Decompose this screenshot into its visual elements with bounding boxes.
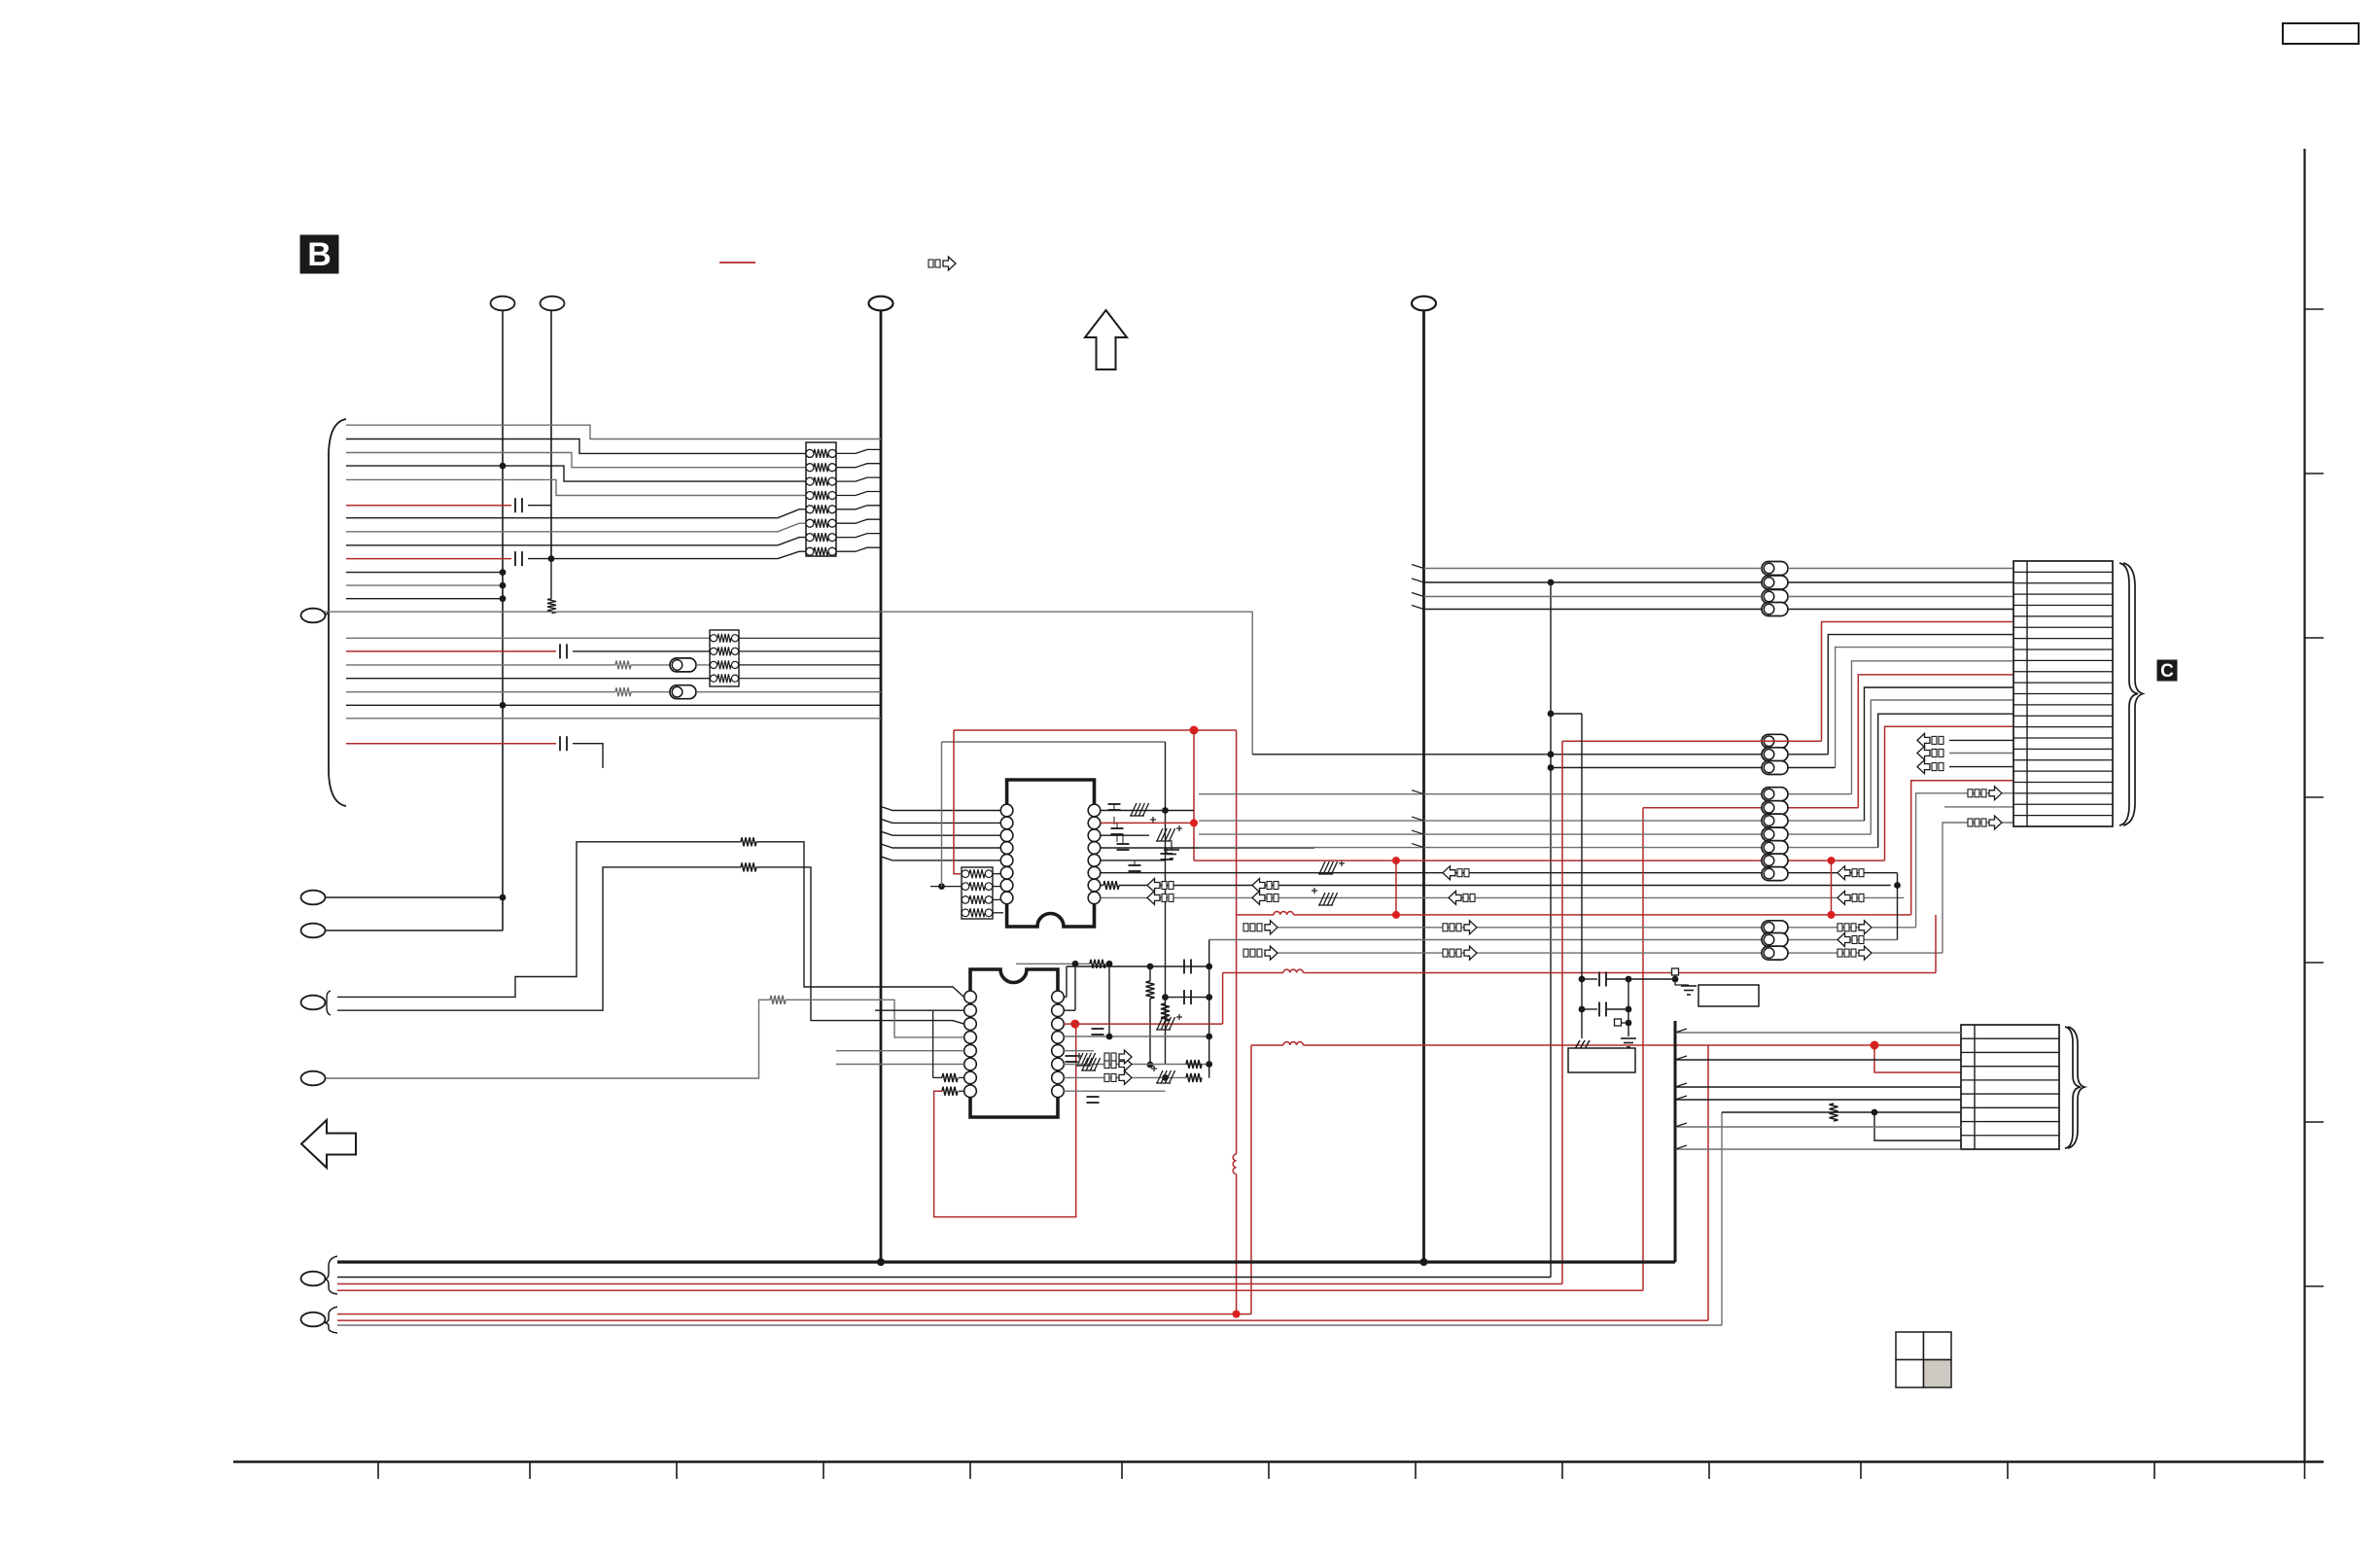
ground G-p1 xyxy=(1131,803,1137,816)
bus red line5 xyxy=(337,1314,1251,1316)
net arrow p7-a xyxy=(1147,879,1160,893)
wire U2 pin R5 xyxy=(1064,1050,1094,1052)
wire U1 pin R5 xyxy=(1101,860,1165,861)
node bus3-V1 xyxy=(500,463,507,470)
terminal oval T7 xyxy=(301,924,326,938)
legend arrow glyph xyxy=(928,260,933,267)
wire bus21 (red) xyxy=(346,743,556,745)
resistor R-o8a xyxy=(741,837,756,846)
wire red V1257 xyxy=(1222,973,1224,1025)
net arrow H953-b xyxy=(1443,924,1448,931)
wire V1243 xyxy=(1208,940,1210,1078)
node v1183-1095 xyxy=(1147,1062,1154,1069)
resistor R-U2L7 xyxy=(959,1076,964,1078)
net arrow p6-b xyxy=(1837,866,1850,880)
U1 pin R1 xyxy=(1088,804,1101,817)
rail V4 (thick) xyxy=(1422,310,1425,1262)
wire red V1287 xyxy=(1250,1045,1252,1315)
wire red H885 xyxy=(1194,860,1885,861)
U2 pin L6 xyxy=(964,1058,977,1070)
U1 pin R8 xyxy=(1088,892,1101,904)
U1 pin R3 xyxy=(1088,829,1101,842)
node h991-1106 xyxy=(1072,961,1079,967)
net arrow H980-b xyxy=(1443,949,1448,957)
connector CN-C brace xyxy=(2119,563,2138,825)
ground G-row6 xyxy=(1319,861,1325,874)
node bus19-V1 xyxy=(500,702,507,709)
node red 1228-751 xyxy=(1190,726,1199,735)
terminal oval T4 xyxy=(1412,297,1436,311)
wire V1772 gray xyxy=(1721,1112,1723,1325)
wire stair2 xyxy=(1828,635,2013,754)
node V1951 xyxy=(1894,882,1901,889)
wire H763 xyxy=(942,741,1166,743)
wire bus19 xyxy=(346,704,881,706)
wire H980 xyxy=(1266,952,1942,954)
RN2 resistor r3 xyxy=(962,909,969,917)
bus thick GND xyxy=(337,1260,1675,1263)
wire bus6 xyxy=(346,509,806,518)
resistor R-V2 xyxy=(547,599,556,614)
bead column C xyxy=(1762,788,1788,801)
wires U1 left pins xyxy=(881,807,1000,811)
wire V1627 xyxy=(1581,714,1583,1038)
terminal oval T10 xyxy=(301,1272,326,1286)
terminal oval T9 xyxy=(301,1071,326,1086)
wire bus10 xyxy=(346,572,503,574)
resistor R-cnd xyxy=(1830,1104,1838,1121)
capacitor C-r3 xyxy=(1092,1028,1104,1030)
wire U2 pin R4 xyxy=(1064,1035,1208,1037)
terminal oval T2 xyxy=(541,297,565,311)
U1 pin L3 xyxy=(1000,829,1013,842)
wire CN-D row10 xyxy=(1675,1148,1961,1150)
inductor L-V1272 xyxy=(1233,1154,1236,1174)
wire V1675 xyxy=(1627,979,1629,1036)
RN3 resistor r3 xyxy=(710,675,717,682)
wire U2 pin L2 staircase xyxy=(337,867,741,1010)
node k2a xyxy=(1579,1006,1586,1013)
section label C xyxy=(2157,660,2177,681)
U2 pin R3 xyxy=(1052,1018,1065,1031)
RP1 resistor r5 xyxy=(806,519,814,527)
node RN2r1 xyxy=(938,883,945,890)
U2 pin R4 xyxy=(1052,1032,1065,1044)
net arrow H966 xyxy=(1837,933,1850,947)
bus gray line7 xyxy=(337,1324,1722,1326)
wire bus1 xyxy=(346,439,806,454)
wire RN2r2 to U1 pin L8 xyxy=(993,898,1000,900)
bead column A xyxy=(1762,562,1788,576)
node h994-1243 xyxy=(1206,964,1212,970)
terminal oval T6 xyxy=(301,891,326,905)
wire red H1075 xyxy=(1251,1044,1283,1046)
net arrow row815 xyxy=(1968,790,1973,797)
capacitor C-k2 xyxy=(1582,1008,1597,1010)
U1 pin R5 xyxy=(1088,855,1101,867)
net arrow H980-c xyxy=(1837,949,1842,957)
node red 1436-940 xyxy=(1392,911,1400,919)
net arrow p8-b xyxy=(1252,891,1265,904)
wire bus14 xyxy=(346,637,710,639)
U1 pin L5 xyxy=(1000,855,1013,867)
net arrow U2r6-2 xyxy=(1104,1053,1109,1061)
U1 pin L2 xyxy=(1000,817,1013,829)
wire red H940 xyxy=(1237,914,1274,916)
node red 1883-940 xyxy=(1828,911,1836,919)
bead FB-b18 xyxy=(670,685,696,699)
net arrow U2r6-1 xyxy=(1104,1061,1109,1069)
wire bus3 xyxy=(346,466,806,481)
U2 pin L7 xyxy=(964,1071,977,1084)
wire red stair9 xyxy=(1885,726,2014,860)
wire U1 pin R4 xyxy=(1101,847,1314,849)
capacitor C-b15 xyxy=(559,644,561,658)
wire red V1436 xyxy=(1395,860,1397,915)
terminal oval T5 xyxy=(301,609,326,623)
wire H1025 cap link xyxy=(1166,997,1209,999)
node bus-V4 xyxy=(1420,1258,1428,1266)
node red 1883-885 xyxy=(1828,857,1836,864)
net arrow p7-b xyxy=(1252,879,1265,893)
pad P1 xyxy=(1672,968,1679,975)
wire U2 pin L4 (from T9) xyxy=(325,1000,770,1078)
wire bus8 xyxy=(346,538,806,545)
wire U2 pin R8 xyxy=(1064,1090,1165,1092)
wire bus15b xyxy=(573,650,710,652)
wire H775 xyxy=(1252,754,1828,755)
legend red wire sample xyxy=(719,262,755,263)
resistor R-o9 xyxy=(770,996,786,1004)
net arrow p8-d xyxy=(1837,891,1850,904)
wire U2 pin L6 xyxy=(836,1064,964,1066)
U1 pin R2 xyxy=(1088,817,1101,829)
wire U1 pin R6 xyxy=(1101,872,1898,874)
RP1 resistor r6 xyxy=(806,534,814,542)
U2 pin R6 xyxy=(1052,1058,1065,1070)
wire U2 pin R1 xyxy=(1064,996,1067,998)
U2 pin L8 xyxy=(964,1085,977,1098)
node bus-V3 xyxy=(877,1258,885,1266)
wire RN2r3 stub xyxy=(993,912,1003,914)
U1 pin L8 xyxy=(1000,892,1013,904)
wire bus13 (T5 row) xyxy=(325,612,1252,754)
wire V1106 xyxy=(1074,964,1076,1010)
wire red V1991 xyxy=(1935,915,1937,973)
wire red V1607 xyxy=(1561,741,1563,1283)
bead FB-b16 xyxy=(670,658,696,672)
wire RN2r1 to U1 pin L7 xyxy=(993,886,1000,888)
capacitor C-p5 xyxy=(1129,864,1141,866)
bus red line3 xyxy=(337,1283,1562,1285)
terminal oval T8 xyxy=(301,996,326,1010)
node r6-1243 xyxy=(1206,1061,1212,1068)
RP1 resistor r2 xyxy=(806,477,814,485)
wire red stair1 xyxy=(1822,622,2014,742)
rail V4 stubs xyxy=(1412,565,1424,569)
wire U2 pin R6 xyxy=(1064,1064,1208,1066)
wire H816 xyxy=(1199,793,1852,795)
wire bus2 xyxy=(346,453,806,468)
wire U2 pin L1 staircase xyxy=(337,842,741,998)
U2 pin L1 xyxy=(964,991,977,1003)
capacitor C-b9 xyxy=(514,551,516,566)
net arrow row846 xyxy=(1968,819,1973,826)
wire U1 pin R2 (red) xyxy=(1101,822,1194,824)
node h991-1141 xyxy=(1106,961,1113,967)
wire bus11 xyxy=(346,584,503,586)
wire red stair5 xyxy=(1858,675,2013,808)
wire bus5b xyxy=(528,505,551,507)
wire red U2 loop xyxy=(934,1024,1076,1217)
wire stair6 xyxy=(1865,687,2014,821)
wire H1007 to pad xyxy=(1628,978,1675,980)
net stub arrow row788 xyxy=(1917,760,1930,774)
svg-text:C: C xyxy=(2160,661,2174,682)
wires rail to beadA xyxy=(1424,568,1763,570)
IC U2 body xyxy=(970,969,1058,1117)
RP1 resistor r3 xyxy=(806,492,814,500)
node h1025-1243 xyxy=(1206,994,1212,1000)
wire stub row829 xyxy=(1944,806,2013,808)
node h1025-1203 xyxy=(1162,994,1169,1000)
U2 pin L5 xyxy=(964,1044,977,1057)
wire CN-D row6 xyxy=(1675,1099,1961,1101)
wire U2 pin L2 short xyxy=(875,1009,964,1011)
direction arrow left xyxy=(301,1120,356,1168)
wire H966 xyxy=(1209,939,1898,941)
resistor R-b16 xyxy=(615,660,631,669)
node r4-1141 xyxy=(1106,1034,1113,1040)
net arrow p8-a xyxy=(1147,891,1160,904)
wire U1 pin R7 xyxy=(1119,885,1891,887)
wire H858 xyxy=(1199,833,1871,835)
wire U2 pin L5 xyxy=(836,1050,964,1052)
direction arrow up xyxy=(1085,310,1127,369)
wire V959 xyxy=(932,1011,934,1077)
RN2 resistor r0 xyxy=(962,870,969,878)
capacitor C-b21 xyxy=(559,736,561,751)
page number box top-right xyxy=(2283,23,2359,44)
wire H789 xyxy=(1551,767,1836,769)
wire red H1000 xyxy=(1223,972,1283,974)
RN2 resistor r2 xyxy=(962,896,969,904)
wire CN-D row8 branch xyxy=(1874,1112,1961,1140)
wire bus0 xyxy=(346,425,881,439)
rail V3 (thick) xyxy=(880,310,883,1262)
wire V1203 xyxy=(1165,742,1167,1065)
capacitor C-p4 xyxy=(1161,853,1173,855)
wire bus18 xyxy=(346,691,615,693)
resistor R-r7 xyxy=(1186,1073,1202,1082)
wire red V1690 xyxy=(1642,808,1644,1291)
wire U1 pin R8 xyxy=(1101,896,1905,898)
node h994-1183 xyxy=(1147,964,1154,970)
wire red V1757 xyxy=(1707,1045,1709,1320)
wire U1 pin R3 xyxy=(1101,834,1149,836)
wire red H830 xyxy=(1643,807,1858,809)
node pad2 xyxy=(1626,1020,1632,1027)
page border bottom xyxy=(233,1460,2324,1462)
RN3 resistor r1 xyxy=(710,648,717,654)
RN3 resistor r0 xyxy=(710,635,717,642)
U1 pin R7 xyxy=(1088,879,1101,892)
node V1595-789 xyxy=(1548,764,1555,771)
capacitor C-b5 xyxy=(514,498,516,512)
wire H991 xyxy=(1016,963,1090,965)
wire RN2 left r1 xyxy=(930,886,962,888)
terminal oval T1 xyxy=(491,297,515,311)
resistor R-v1183 xyxy=(1146,981,1155,999)
U2 pin R2 xyxy=(1052,1004,1065,1017)
U1 pin L6 xyxy=(1000,866,1013,879)
terminal oval T3 xyxy=(869,297,893,311)
wire bus20 xyxy=(346,718,881,719)
RP1 resistor r0 xyxy=(806,449,814,457)
node H775-V1595 xyxy=(1548,751,1555,757)
svg-text:B: B xyxy=(307,236,332,273)
wire bus12 xyxy=(346,598,503,600)
ground G-p3 xyxy=(1164,849,1179,851)
capacitor C-p3 xyxy=(1117,843,1130,845)
wire bus7 xyxy=(346,523,806,532)
RP1 resistor r7 xyxy=(806,547,814,555)
wire U2 pin R7 xyxy=(1064,1076,1186,1078)
resistor network RN3 xyxy=(710,630,739,686)
U1 pin R6 xyxy=(1088,866,1101,879)
RN2 resistor r1 xyxy=(962,883,969,891)
ground G-k2 xyxy=(1621,1037,1636,1039)
U2 pin L4 xyxy=(964,1032,977,1044)
label box BXA xyxy=(1698,985,1759,1006)
border ticks right xyxy=(2305,308,2325,310)
wire bus4 xyxy=(346,479,806,495)
node bus10-V1 xyxy=(500,569,507,576)
ground G-r5 xyxy=(1077,1053,1083,1066)
U1 pin R4 xyxy=(1088,842,1101,855)
section label B xyxy=(300,235,338,273)
wire red V1883 xyxy=(1831,860,1833,915)
capacitor C-r5 xyxy=(1066,1055,1078,1057)
bead column B xyxy=(1762,734,1788,748)
IC U1 body xyxy=(1007,780,1095,927)
resistor R-b18 xyxy=(615,687,631,696)
wire red V1272 xyxy=(1236,730,1238,1154)
wire bus17 xyxy=(346,678,710,680)
RN3 resistor r2 xyxy=(710,661,717,668)
node red U2 pin R3 xyxy=(1070,1020,1079,1029)
rail V2 xyxy=(550,310,552,559)
node pad1007 xyxy=(1672,976,1679,983)
wire bus9b xyxy=(528,551,806,558)
node pinR1-V1203 xyxy=(1162,807,1169,814)
wire stair7 xyxy=(1871,700,2013,834)
wire bus21b xyxy=(573,744,603,768)
wire bus15 (red) xyxy=(346,650,556,652)
wire U1 pin R1 xyxy=(1101,810,1194,812)
capacitor C-h1025 xyxy=(1183,990,1185,1004)
node V1595-599 xyxy=(1548,579,1555,586)
U1 pin L4 xyxy=(1000,842,1013,855)
wire H871 xyxy=(1199,847,1878,849)
node r7-1203 xyxy=(1162,1074,1169,1081)
U1 pin L7 xyxy=(1000,879,1013,892)
wire bus5 (red) xyxy=(346,505,511,507)
wire CN-D row9 xyxy=(1675,1126,1961,1128)
ground G-p2 xyxy=(1157,828,1163,841)
wire red H751 xyxy=(954,729,1237,731)
node k1a xyxy=(1579,976,1586,983)
node red bus5 xyxy=(1233,1311,1241,1318)
wire CN-D row7 xyxy=(1722,1111,1961,1113)
left connector bracket xyxy=(329,419,346,806)
wire stair8 xyxy=(1878,714,2013,847)
wire V1951 xyxy=(1897,873,1899,940)
ground G-r7 xyxy=(1157,1070,1163,1083)
wire stair4 xyxy=(1852,661,2014,794)
wire gray stair11 xyxy=(1916,793,2013,928)
wire V1097 xyxy=(1066,966,1067,997)
grid locator marker xyxy=(1896,1332,1924,1360)
resistor network RP1 xyxy=(806,442,836,556)
wire V968 up xyxy=(941,742,943,887)
capacitor C-p1 xyxy=(1108,803,1121,805)
wire red V1928 xyxy=(1874,1045,1961,1072)
resistor R-p7 xyxy=(1101,885,1103,887)
node V1595-734 xyxy=(1548,711,1555,718)
node bus9-V2 xyxy=(548,555,555,562)
resistor R-h991 xyxy=(1090,960,1105,968)
resistor R-v1203 xyxy=(1161,1003,1170,1021)
wire U2 pin R2 xyxy=(1064,1009,1075,1011)
capacitor C-p2 xyxy=(1111,827,1124,829)
wire RN2r0 to U1 pin L6 xyxy=(993,873,1000,875)
U2 pin R1 xyxy=(1052,991,1065,1003)
node T6-V1 xyxy=(500,895,507,901)
wire V1141 xyxy=(1108,964,1110,1036)
resistor R-r6 xyxy=(1186,1060,1202,1069)
U1 pin L1 xyxy=(1000,804,1013,817)
wires beadA to connector xyxy=(1788,568,2013,570)
pad P2 xyxy=(1615,1019,1622,1026)
node k1b xyxy=(1626,976,1632,983)
label box BXB xyxy=(1568,1048,1635,1072)
page border right xyxy=(2303,149,2305,1462)
node r4-1243 xyxy=(1206,1034,1212,1040)
net arrow U2r7-1 xyxy=(1104,1073,1109,1081)
wire red V1228 xyxy=(1193,730,1195,860)
resistor R-o8b xyxy=(741,862,756,871)
wire gray stair12 xyxy=(1942,823,2013,953)
net arrow p8-c xyxy=(1449,891,1461,904)
node cnd-1928 xyxy=(1872,1109,1878,1116)
capacitor C-r8 xyxy=(1087,1096,1100,1098)
wire CN-D row3 xyxy=(1675,1059,1961,1061)
wire H953 xyxy=(1266,927,1916,929)
terminal oval T11 xyxy=(301,1313,326,1327)
U2 pin R7 xyxy=(1052,1071,1065,1084)
bus red line6 xyxy=(337,1319,1708,1321)
net arrow H953-c xyxy=(1837,924,1842,931)
net arrow H953-a xyxy=(1243,924,1248,931)
wire bus9 (red) xyxy=(346,558,511,560)
wire red U2 pin R3 xyxy=(1064,1023,1222,1025)
net arrow H980-a xyxy=(1243,949,1248,957)
capacitor C-k1 xyxy=(1582,978,1597,980)
U2 pin L3 xyxy=(964,1018,977,1031)
wire CN-D row5 xyxy=(1675,1086,1961,1088)
net stub arrow row761 xyxy=(1917,733,1930,747)
